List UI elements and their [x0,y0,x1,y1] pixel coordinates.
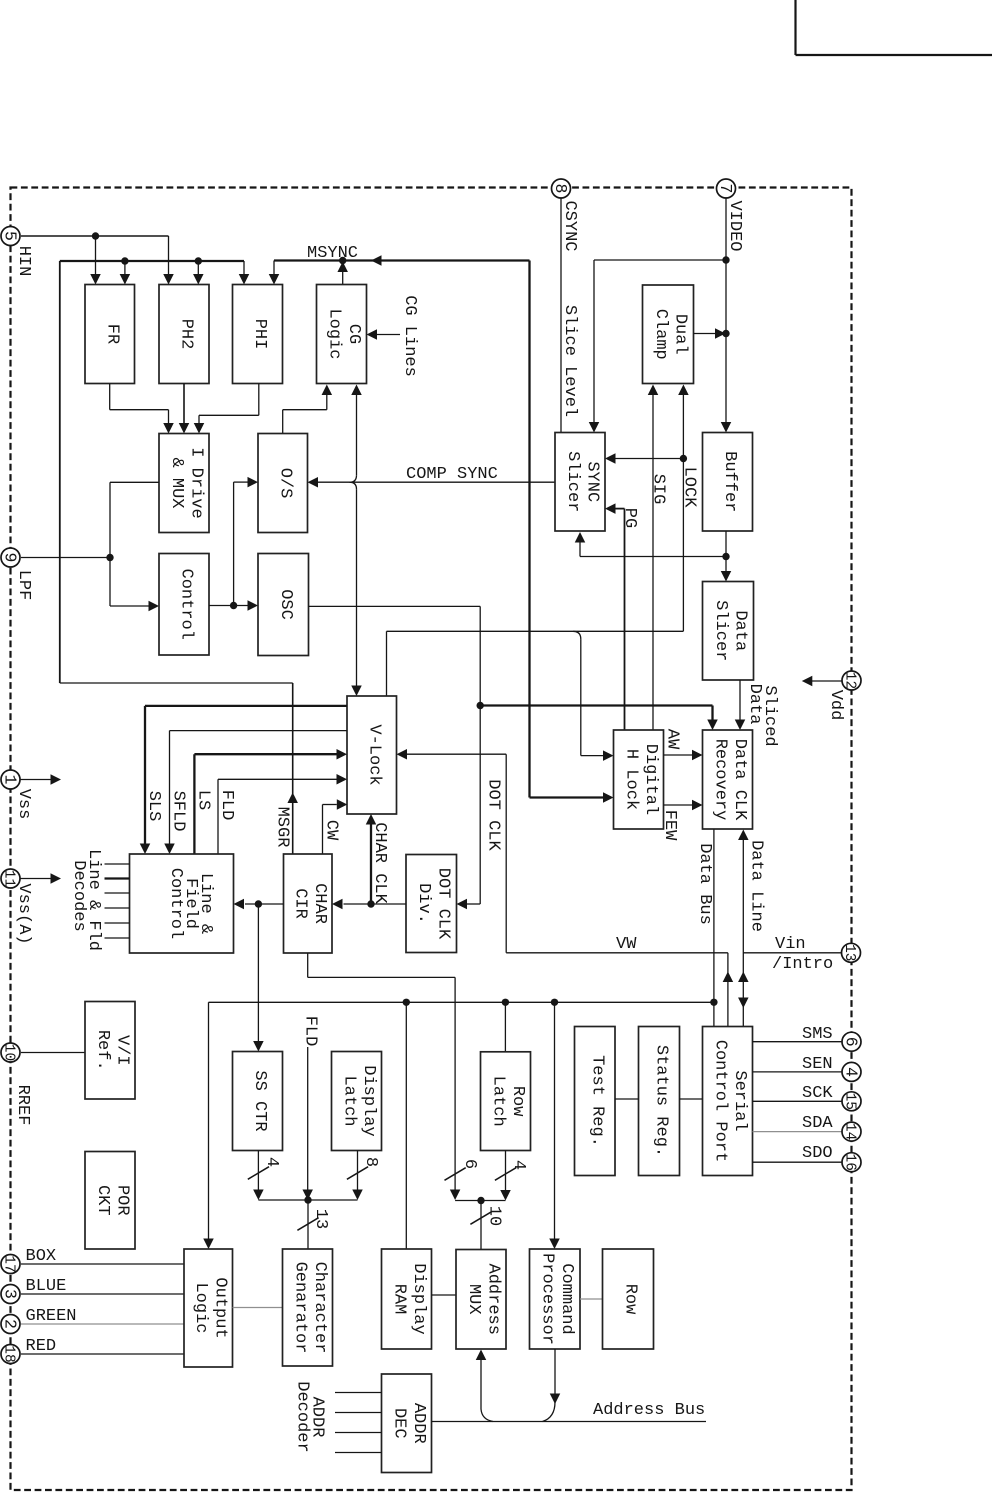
svg-text:GREEN: GREEN [26,1307,77,1326]
junction to Row Latch [502,999,509,1006]
svg-text:RREF: RREF [13,1085,32,1126]
wire decode input 3 [105,892,130,894]
block Dual Clamp [643,285,694,384]
svg-text:Test Reg.: Test Reg. [587,1055,606,1147]
arrow Data Line down [738,998,749,1009]
wire CHAR CLK [370,825,372,905]
svg-text:Serial: Serial [730,1070,749,1131]
pin 2 [1,1315,20,1334]
svg-text:1: 1 [1,775,20,785]
wire to Display RAM [405,1002,407,1249]
block Data CLK Recovery [703,730,753,829]
block Status Reg. [639,1027,680,1176]
wire SEN [753,1071,843,1073]
wire Command Processor to Row [580,1298,603,1300]
svg-text:H Lock: H Lock [621,749,640,810]
wire SMS [753,1041,843,1043]
wire CG Lines input [377,334,400,336]
pin 10 [1,1043,20,1062]
svg-text:Recovery: Recovery [710,739,729,821]
pin 12 wire [812,680,842,682]
svg-text:PG: PG [620,508,639,528]
svg-text:13: 13 [311,1209,330,1229]
wire to SS CTR [257,904,259,1041]
junction LOCK [680,455,687,462]
svg-text:13: 13 [841,944,857,961]
block PH2 [159,285,209,384]
wire to I Drive left [110,481,159,483]
wire SLS [145,705,347,707]
svg-text:Digital: Digital [641,744,660,815]
junction Dual Clamp out [722,330,729,337]
svg-text:Display: Display [409,1263,428,1334]
wire to SYNC Slicer bottom [580,556,726,558]
junction Control-OSC [230,602,237,609]
wire up to O/S left [233,482,235,605]
wire FEW [664,804,693,806]
svg-text:SDO: SDO [802,1144,833,1163]
svg-text:Buffer: Buffer [720,451,739,512]
svg-text:O/S: O/S [275,468,294,499]
block Control [159,554,209,656]
svg-text:CG: CG [344,324,363,344]
slash 8 [347,1167,368,1180]
wire decoder input 2 [335,1412,382,1414]
svg-text:MSYNC: MSYNC [307,244,358,263]
wire V-Lock right input [407,753,506,755]
block Digital H Lock [614,730,664,829]
wire SIG vertical [652,395,654,731]
wire Address MUX feed [480,1360,482,1409]
pin 8 wire CSYNC [560,197,562,433]
pin 17 wire BOX [21,1263,184,1265]
svg-text:Address: Address [483,1264,502,1335]
svg-text:Data Line: Data Line [747,840,766,932]
svg-text:8: 8 [361,1157,380,1167]
wire FR output [109,384,111,410]
svg-text:OSC: OSC [276,589,295,620]
svg-text:CHAR: CHAR [310,883,329,924]
junction line B at PH2 [195,257,202,264]
block Display RAM [382,1249,432,1349]
slash 4b [495,1168,516,1181]
svg-text:9: 9 [1,553,20,563]
wire VW horizontal [506,952,728,954]
svg-text:Clamp: Clamp [651,309,670,360]
wire CHAR CIR to LFC [245,903,284,905]
pin 9 [1,548,20,567]
wire OSC output [309,605,481,607]
svg-text:16: 16 [842,1153,858,1170]
wire Control to OSC [209,605,248,607]
svg-text:FLD: FLD [217,790,236,821]
slash 10 [470,1212,491,1225]
block Row [603,1249,654,1349]
svg-text:Genarator: Genarator [290,1262,309,1354]
svg-text:V-Lock: V-Lock [364,724,383,785]
svg-text:CW: CW [322,820,341,841]
block POR CKT [85,1152,135,1250]
svg-text:Vin: Vin [775,935,806,954]
block Row Latch [481,1052,531,1151]
wire V-Lock top to LOCK line [386,631,388,696]
wire pin 11 arrow [21,878,52,880]
svg-text:LPF: LPF [14,570,33,601]
svg-text:CG Lines: CG Lines [400,295,419,377]
wire decoder input 4 [335,1452,382,1454]
wire PHI output [258,384,260,416]
pin 14 [842,1122,861,1141]
svg-text:8: 8 [551,184,570,194]
svg-text:VIDEO: VIDEO [725,200,744,251]
pin 1 [1,770,20,789]
svg-text:Vss: Vss [14,789,33,820]
svg-text:PHI: PHI [250,319,269,350]
pin 16 [842,1153,861,1172]
svg-text:Slicer: Slicer [711,600,730,661]
svg-text:DOT CLK: DOT CLK [484,779,503,851]
wire Data Bus vertical [713,830,715,1027]
wire Row Latch output [505,1151,507,1191]
pin 3 wire BLUE [21,1293,184,1295]
pin 11 [1,869,20,888]
wire LS [193,754,195,854]
block Test Reg. [575,1027,616,1176]
wire COMP SYNC [318,481,555,483]
wire decoder input 1 [335,1392,382,1394]
wire to Control left [110,605,149,607]
svg-text:Data: Data [730,610,749,651]
wire SDO [753,1161,843,1163]
wire SFLD [170,730,348,732]
svg-text:2: 2 [1,1319,20,1329]
svg-text:Decodes: Decodes [69,860,88,931]
svg-text:Row: Row [621,1284,640,1315]
wire SS CTR output [257,1151,259,1190]
svg-text:RED: RED [26,1337,57,1356]
svg-text:Control: Control [166,868,185,939]
pin 7 [717,179,736,198]
block PHI [233,285,283,384]
svg-text:RAM: RAM [389,1284,408,1315]
svg-text:3: 3 [1,1289,20,1299]
wire VW drop to Serial Port [727,953,729,1027]
chip boundary (dashed border) [11,188,852,1491]
svg-text:VW: VW [616,935,637,954]
wire line B end to PHI [243,261,245,275]
block CG Logic [317,285,367,384]
wire line A drop to PH2 [168,236,170,275]
svg-text:Latch: Latch [488,1076,507,1127]
pin 12 [842,671,861,690]
wire VIDEO to Buffer [725,260,727,422]
svg-text:Output: Output [211,1277,230,1338]
junction addr bus [477,1197,484,1204]
wire SDA [753,1131,843,1133]
wire char bus join [258,1199,357,1201]
svg-text:FR: FR [102,324,121,344]
wire VIDEO branch to SYNC Slicer [594,259,726,261]
svg-text:HIN: HIN [14,246,33,277]
wire Display Latch output [357,1151,359,1190]
svg-text:Dual: Dual [670,314,689,355]
block Data Slicer [703,582,754,681]
junction line B at FR [121,257,128,264]
block Display Latch [332,1052,382,1151]
svg-text:10: 10 [485,1206,504,1226]
svg-text:MUX: MUX [464,1284,483,1315]
wire LOCK vertical [682,395,684,632]
junction LPF [106,554,113,561]
wire addr bus join [455,1200,505,1202]
svg-text:SLS: SLS [144,791,163,822]
arrow Data Line up [738,972,749,983]
wire DOT CLK to Div [467,903,480,905]
svg-text:Data CLK: Data CLK [730,739,749,821]
wire Display RAM to Address MUX [432,1294,457,1296]
pin 5 [1,227,20,246]
pin 4 [842,1062,861,1081]
wire AW [664,754,693,756]
wire Data Slicer output [739,680,741,720]
wire LOCK branch to H Lock [573,631,581,639]
junction char bus [304,1196,311,1203]
pin 2 wire GREEN [21,1323,184,1325]
svg-text:CHAR CLK: CHAR CLK [370,822,389,904]
page corner frame (top right) [794,0,796,55]
block ADDR DEC [382,1374,432,1473]
svg-text:CKT: CKT [93,1185,112,1216]
wire PH2 output [183,384,185,424]
svg-text:6: 6 [460,1159,479,1169]
wire Output Logic to Character Genarator [233,1307,283,1309]
wire Data Bus horizontal [209,1001,714,1003]
svg-text:SDA: SDA [802,1114,833,1133]
wire branch to FR left [95,236,97,275]
wire Test-Status [615,1098,639,1100]
wire CW [322,805,324,854]
wire decode input 2 [105,877,130,879]
wire decode input 5 [105,922,130,924]
wire Buffer bottom [725,531,727,557]
junction Buffer out [722,553,729,560]
pin 7 wire VIDEO [725,197,727,260]
svg-text:Control Port: Control Port [710,1040,729,1162]
block CHAR CIR [284,854,333,953]
svg-text:SCK: SCK [802,1084,833,1103]
pin 3 [1,1285,20,1304]
block Character Genarator [283,1249,333,1366]
wire decode input 1 [105,863,130,865]
svg-text:10: 10 [1,1044,17,1061]
svg-text:Address Bus: Address Bus [593,1401,705,1420]
svg-text:SEN: SEN [802,1055,833,1074]
svg-text:Command: Command [557,1263,576,1334]
junction Data Bus [710,999,717,1006]
svg-text:DEC: DEC [389,1408,408,1439]
wire CG-VLock vertical [356,395,358,476]
block Address MUX [456,1250,506,1350]
block I Drive & MUX [159,434,209,533]
wire Address Bus [432,1421,707,1423]
svg-text:LOCK: LOCK [680,467,699,509]
wire decoder input 3 [335,1432,382,1434]
wire to Row Latch [504,1002,506,1052]
wire LOCK to SYNC Slicer [616,458,684,460]
svg-text:Control: Control [177,569,196,640]
svg-text:Decoder: Decoder [293,1381,312,1452]
wire O/S top to CG Logic [282,410,284,434]
svg-text:MSGR: MSGR [273,807,292,848]
svg-text:/Intro: /Intro [772,955,833,974]
svg-text:SFLD: SFLD [169,791,188,832]
wire FLD to V-Lock [217,779,219,854]
svg-text:Logic: Logic [191,1282,210,1333]
junction DOT CLK [477,702,484,709]
block O/S [258,434,308,533]
wire to FR right [124,261,126,275]
slash 6 [445,1168,466,1181]
svg-text:BOX: BOX [26,1247,57,1266]
svg-text:Status Reg.: Status Reg. [652,1045,671,1157]
pin 8 [552,179,571,198]
svg-text:PH2: PH2 [177,319,196,350]
svg-text:17: 17 [1,1255,17,1272]
svg-text:DOT CLK: DOT CLK [434,868,453,940]
svg-text:SS CTR: SS CTR [250,1070,269,1131]
junction CHAR CLK [367,900,374,907]
block FR [85,285,135,384]
wire to Data Slicer top [725,557,727,572]
wire MSYNC vertical to H Lock [528,261,530,798]
wire MSYNC drop to PHI [273,261,275,276]
svg-text:Ref.: Ref. [93,1030,112,1071]
block Output Logic [184,1249,233,1367]
svg-text:7: 7 [716,184,735,194]
wire to Command Processor [554,1002,556,1239]
wire CG Logic MSYNC output [342,272,344,285]
wire decode input 4 [105,907,130,909]
svg-text:5: 5 [1,231,20,241]
wire MSGR [60,682,293,684]
block Serial Control Port [703,1027,753,1176]
svg-text:14: 14 [842,1123,858,1140]
svg-text:Div.: Div. [414,883,433,924]
wire Status-Serial [680,1098,703,1100]
wire HIN bus line B [59,261,61,683]
svg-text:4: 4 [509,1160,528,1170]
svg-text:Vdd: Vdd [826,690,845,721]
svg-text:CIR: CIR [291,888,310,919]
block Command Processor [530,1249,581,1349]
junction VIDEO [722,256,729,263]
pin 18 [1,1345,20,1364]
wire Dual Clamp output [694,333,716,335]
wire 10 to Address MUX [480,1201,482,1250]
slash 13 [297,1218,318,1231]
svg-text:Character: Character [310,1262,329,1354]
junction to Command Processor [551,999,558,1006]
svg-text:POR: POR [112,1185,131,1216]
svg-text:15: 15 [842,1093,858,1110]
svg-text:V/I: V/I [112,1035,131,1066]
svg-text:SYNC: SYNC [582,461,601,502]
svg-text:Data Bus: Data Bus [695,843,714,925]
block SS CTR [233,1052,283,1151]
block DOT CLK Div. [406,855,457,953]
svg-text:4: 4 [262,1157,281,1167]
wire 13 to Character Genarator [307,1200,309,1249]
block SYNC Slicer [555,433,605,532]
pin 13 [842,943,861,962]
svg-text:18: 18 [1,1345,17,1362]
wire CHAR CIR to addr bus 6 [307,953,309,977]
svg-text:Display: Display [359,1065,378,1136]
svg-text:Vss(A): Vss(A) [14,883,33,944]
svg-text:SMS: SMS [802,1025,833,1044]
svg-text:I Drive: I Drive [186,447,205,518]
wire SCK [753,1100,843,1102]
wire Data Line [742,840,744,1027]
wire FLD lower [307,1047,309,1190]
pin 13 wire [743,952,841,954]
svg-text:4: 4 [842,1067,861,1077]
wire to PH2 right [197,261,199,275]
svg-text:SIG: SIG [649,474,668,505]
slash 4 [248,1167,269,1180]
wire Data Bus to Output Logic [208,1002,210,1239]
svg-text:& MUX: & MUX [167,457,186,508]
block OSC [258,554,309,656]
junction SS CTR feed [255,900,262,907]
svg-text:FLD: FLD [301,1016,320,1047]
wire to Data CLK Recovery top [480,704,712,706]
block Buffer [703,433,753,532]
svg-text:FEW: FEW [660,810,679,841]
svg-text:Logic: Logic [324,308,343,359]
svg-text:12: 12 [842,672,858,689]
svg-text:Slicer: Slicer [563,451,582,512]
pin 6 [842,1032,861,1051]
svg-text:BLUE: BLUE [26,1277,67,1296]
wire char clock bus [344,903,407,905]
svg-text:Slice Level: Slice Level [560,305,579,417]
pin 18 wire RED [21,1353,184,1355]
pin 15 [842,1092,861,1111]
block V/I Ref. [85,1002,135,1100]
wire decode input 6 [105,937,130,939]
svg-text:6: 6 [842,1037,861,1047]
svg-text:Processor: Processor [538,1253,557,1345]
junction to Display RAM [403,999,410,1006]
svg-text:Data: Data [745,684,764,725]
pin 10 wire [21,1052,85,1054]
svg-text:CSYNC: CSYNC [560,200,579,251]
svg-text:Latch: Latch [339,1075,358,1126]
svg-text:AW: AW [663,729,682,750]
svg-text:Row: Row [508,1086,527,1117]
svg-text:COMP SYNC: COMP SYNC [406,465,498,484]
wire PG [616,508,625,510]
svg-text:LS: LS [193,790,212,810]
pin 17 [1,1255,20,1274]
pin 9 wire [21,557,110,559]
wire Command Processor to bus [554,1349,556,1394]
wire LPF vertical [109,482,111,606]
wire MSYNC bus [274,259,530,261]
wire SIG arrow into Dual Clamp [648,385,659,396]
block Line & Field Control [130,854,234,953]
